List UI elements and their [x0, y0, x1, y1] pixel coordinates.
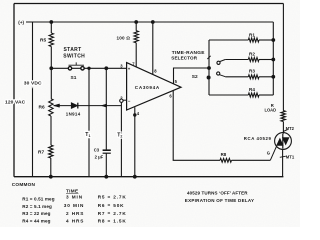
node pin8 rail tap	[151, 21, 154, 24]
resistor 100-ohm	[134, 31, 138, 43]
switch S2 arm R3	[220, 75, 226, 77]
switch S2 contact R2	[217, 61, 220, 64]
wire wiper-diode line	[54, 105, 122, 107]
wire R1 to right bus	[259, 39, 273, 41]
svg-text:TIME: TIME	[66, 188, 78, 193]
capacitor C3	[103, 149, 111, 151]
switch S1 arm	[69, 62, 85, 65]
node R7 rail junction	[49, 175, 52, 178]
junction arrowhead at C3 line	[101, 104, 106, 107]
svg-text:R8 = 1.5K: R8 = 1.5K	[98, 219, 127, 224]
wire C3 to rail	[105, 153, 107, 177]
svg-text:R3 = 22 meg: R3 = 22 meg	[22, 211, 50, 216]
wire pin3 line	[51, 67, 126, 69]
svg-text:R2: R2	[249, 51, 255, 56]
switch S2 arm R2	[220, 60, 226, 62]
wire R2 row	[225, 59, 248, 61]
wire bottom COMMON rail	[14, 176, 283, 178]
svg-text:S1: S1	[71, 75, 77, 81]
wire T2 link to pin2	[123, 99, 127, 101]
svg-text:MT1: MT1	[286, 154, 295, 159]
svg-text:R5 = 2.7K: R5 = 2.7K	[98, 195, 127, 200]
node R1 right	[272, 39, 275, 42]
svg-text:R7 = 2.7K: R7 = 2.7K	[98, 211, 127, 216]
switch S2 pole dot	[207, 76, 210, 79]
terminal tick MT1	[280, 156, 286, 157]
svg-text:SELECTOR: SELECTOR	[171, 56, 197, 61]
svg-text:−: −	[128, 98, 131, 103]
wire left 120VAC conductor	[13, 4, 15, 177]
wire right bus of bank	[272, 22, 274, 95]
node R2 right	[272, 58, 275, 61]
op-amp U1 triangle	[127, 63, 181, 110]
resistor R7	[49, 145, 53, 158]
resistor R6	[49, 99, 53, 116]
wire R3 row	[225, 76, 248, 78]
wire pin8 stub	[152, 22, 154, 74]
wire top conductor	[14, 3, 283, 5]
resistor R5	[49, 33, 53, 47]
wire gate diagonal	[270, 147, 276, 161]
svg-text:+: +	[128, 67, 131, 72]
svg-text:30 MIN: 30 MIN	[64, 203, 85, 208]
node pin4 rail junction	[133, 175, 136, 178]
wire R4 row	[209, 94, 248, 96]
node S1 junction	[50, 67, 53, 70]
wire R3 to right bus	[259, 76, 273, 78]
wire +30V rail	[26, 21, 273, 23]
diode D1 1N914	[71, 103, 77, 109]
svg-text:4 HRS: 4 HRS	[66, 219, 84, 224]
wire load to triac	[282, 122, 284, 134]
svg-text:3 MIN: 3 MIN	[66, 195, 83, 200]
svg-text:R1: R1	[249, 33, 255, 38]
resistor R8	[220, 158, 232, 162]
potentiometer R6 wiper arrow	[54, 104, 60, 107]
resistor R3	[248, 75, 259, 79]
wire pin4 lead	[134, 107, 136, 177]
node T1 tap	[88, 67, 90, 69]
wire R5 to S1 node	[50, 47, 52, 69]
svg-text:R3: R3	[249, 69, 255, 74]
wire pin5 lead	[174, 68, 210, 84]
svg-text:COMMON: COMMON	[12, 182, 36, 187]
svg-text:40529 TURNS ‘OFF’ AFTER: 40529 TURNS ‘OFF’ AFTER	[187, 191, 248, 196]
svg-text:100 Ω: 100 Ω	[117, 36, 131, 41]
wire T2 vertical	[120, 102, 122, 176]
triac Q1 symbol	[277, 138, 284, 145]
svg-text:(+): (+)	[18, 20, 24, 25]
wire C3 branch vertical upper	[105, 68, 107, 150]
wire pin6 lead	[173, 91, 220, 161]
svg-text:EXPIRATION OF TIME DELAY: EXPIRATION OF TIME DELAY	[185, 198, 254, 203]
wire right conductor upper	[282, 4, 284, 111]
svg-text:R7: R7	[38, 150, 44, 156]
wire selector pole vertical	[208, 40, 210, 95]
wire T1 vertical	[88, 68, 90, 176]
wire R7 to rail	[50, 158, 52, 177]
wire 120VAC return	[32, 22, 34, 177]
svg-text:RCA 40529: RCA 40529	[244, 136, 272, 141]
resistor R4	[248, 93, 259, 97]
svg-text:LOAD: LOAD	[265, 107, 277, 112]
triac Q1 RCA 40529 envelope	[275, 133, 292, 150]
switch S2 contact R3	[217, 72, 220, 75]
svg-text:CA3094A: CA3094A	[135, 85, 160, 90]
wire R8 to gate	[232, 159, 271, 161]
wire R2 to right bus	[259, 59, 273, 61]
svg-text:R6 = 50K: R6 = 50K	[98, 203, 125, 208]
switch S1 left contact	[68, 67, 71, 70]
svg-text:C3: C3	[94, 147, 100, 152]
svg-text:R1 = 0.51 meg: R1 = 0.51 meg	[22, 197, 54, 202]
svg-text:SWITCH: SWITCH	[63, 53, 85, 59]
svg-text:S2: S2	[192, 74, 198, 80]
svg-text:R8: R8	[221, 152, 227, 157]
wire R6 to R7	[50, 116, 52, 145]
wire R4 to right bus	[259, 94, 273, 96]
switch S1 right contact	[81, 67, 84, 70]
svg-text:1N914: 1N914	[66, 111, 81, 116]
wire triac to rail	[282, 150, 284, 177]
node C3 branch top	[105, 67, 108, 70]
terminal T2 circle	[120, 99, 123, 102]
node R3 right	[272, 75, 275, 78]
wire R1 row	[209, 39, 248, 41]
svg-text:R5: R5	[40, 38, 46, 44]
svg-text:R4 = 44 meg: R4 = 44 meg	[22, 218, 50, 223]
resistor R-load	[281, 111, 285, 122]
svg-text:R2 = 5.1 meg: R2 = 5.1 meg	[22, 204, 52, 209]
svg-text:R4: R4	[249, 87, 255, 92]
wire R5 branch upper	[50, 22, 52, 33]
resistor R2	[248, 58, 259, 62]
svg-text:120 VAC: 120 VAC	[5, 99, 26, 105]
svg-text:2 HRS: 2 HRS	[66, 211, 84, 216]
wire pin7 lead	[135, 43, 137, 67]
svg-text:2 μF: 2 μF	[95, 155, 104, 160]
switch S2 wiper tick	[207, 56, 210, 59]
node pin4 blob	[134, 114, 136, 116]
wire S1 node down to R6	[50, 68, 52, 98]
node C3 rail junction	[105, 175, 108, 178]
node pin5-pole junction	[208, 67, 211, 70]
svg-text:R6: R6	[39, 105, 45, 111]
resistor R1	[248, 38, 259, 42]
node R5 top	[50, 21, 53, 24]
svg-text:G: G	[267, 151, 270, 156]
svg-text:START: START	[64, 47, 82, 53]
wire 100-ohm upper	[135, 22, 137, 31]
node 100-ohm top	[135, 21, 138, 24]
terminal tick MT2	[283, 130, 288, 132]
svg-text:30 VDC: 30 VDC	[24, 81, 42, 87]
svg-text:MT2: MT2	[286, 126, 295, 131]
